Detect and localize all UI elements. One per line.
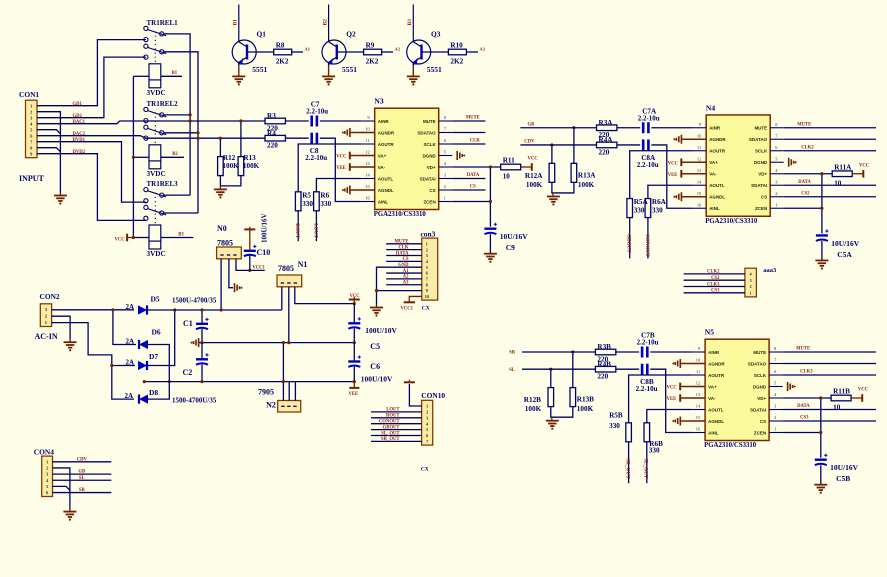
svg-text:MUTE: MUTE: [466, 116, 480, 121]
resistor R6: [314, 192, 320, 211]
voltage regulator N0 (7805): [217, 247, 242, 259]
relay TR1REL3 switch arm 2: [148, 209, 167, 215]
resistor R9: [364, 49, 382, 55]
power bar VCC R11A: [862, 170, 864, 178]
svg-text:TR1REL3: TR1REL3: [147, 180, 179, 188]
wire con3 wire A1: [386, 272, 422, 274]
svg-text:100K: 100K: [222, 162, 239, 170]
wire ground mid rail: [199, 342, 355, 344]
wire R8 to A1: [292, 51, 303, 53]
svg-text:CDV: CDV: [524, 139, 535, 144]
svg-text:VA+: VA+: [378, 153, 387, 158]
wire N0 input stub to positive rail: [220, 259, 222, 310]
svg-text:VCC: VCC: [528, 157, 539, 162]
ground N0: [234, 283, 236, 292]
junction R12A top: [550, 143, 553, 146]
svg-text:DATA: DATA: [396, 251, 409, 256]
svg-text:GB: GB: [78, 470, 85, 475]
wire R12 R13 ground link: [220, 176, 241, 186]
svg-text:D7: D7: [149, 352, 158, 361]
svg-text:AOUTL: AOUTL: [378, 176, 394, 181]
ground stem R12B: [551, 417, 553, 421]
svg-text:6: 6: [426, 433, 428, 438]
svg-text:D6: D6: [152, 328, 161, 337]
svg-text:11: 11: [696, 369, 700, 374]
svg-text:B2: B2: [322, 19, 328, 26]
N5 pin 5 stub: [769, 386, 783, 388]
svg-text:R9: R9: [366, 42, 375, 50]
ground C5A: [815, 259, 828, 261]
junction N5 VD+ node: [819, 396, 822, 399]
transistor Q1 ground stem: [238, 66, 240, 77]
N5 pin 9 stub: [692, 351, 706, 353]
svg-text:AINR: AINR: [708, 350, 720, 355]
wire GD1 CON1 pin1 to relay REL1: [37, 40, 146, 106]
svg-text:5551: 5551: [427, 65, 442, 74]
ground N5 AGNDR: [679, 359, 681, 368]
svg-text:5: 5: [46, 484, 48, 489]
svg-text:AINL: AINL: [708, 430, 719, 435]
svg-text:AC-IN: AC-IN: [35, 332, 58, 341]
wire relay TR1REL3 coil right wire: [161, 237, 194, 239]
junction N4 ZCEN node: [820, 207, 823, 210]
svg-text:13: 13: [697, 168, 701, 173]
svg-text:Q1: Q1: [257, 30, 267, 39]
svg-text:8: 8: [30, 146, 32, 151]
transistor Q3: [407, 40, 431, 64]
svg-text:CS: CS: [470, 185, 476, 190]
junction N4 VD+ node: [820, 172, 823, 175]
svg-text:VA+: VA+: [708, 384, 717, 389]
svg-text:B3: B3: [178, 232, 184, 237]
svg-text:1: 1: [426, 404, 428, 409]
svg-text:R3A: R3A: [599, 119, 614, 127]
op-amp N4 (PGA2310/CS3310 volume control IC): [706, 115, 770, 216]
transistor Q2 emitter: [329, 57, 337, 62]
svg-text:TR1REL1: TR1REL1: [147, 19, 179, 27]
wire R6A output: [647, 218, 649, 259]
svg-text:CS2: CS2: [711, 276, 720, 281]
svg-text:VD+: VD+: [757, 396, 766, 401]
ground Q2: [322, 75, 335, 77]
svg-text:MUTE: MUTE: [797, 122, 811, 127]
transistor Q1 emitter: [239, 57, 247, 62]
svg-text:9: 9: [426, 288, 428, 293]
junction C5 at mid rail: [353, 341, 356, 344]
wire CON10 pin1 to chassis: [409, 384, 421, 406]
svg-text:CLK3: CLK3: [707, 282, 720, 287]
wire R12 to R4 row: [219, 138, 221, 156]
wire relay TR1REL3 coil left wire: [133, 237, 149, 239]
resistor R3B: [595, 349, 615, 355]
junction C1 mid rail: [200, 341, 203, 344]
svg-text:9: 9: [699, 122, 701, 127]
svg-text:DGND: DGND: [754, 160, 768, 165]
wire R3B to C7B: [616, 351, 639, 353]
transistor Q3 collector: [413, 42, 421, 47]
relay TR1REL1 contact circle 1: [144, 26, 148, 30]
wire negative rail: [144, 381, 354, 383]
svg-text:SDATAO: SDATAO: [417, 130, 436, 135]
resistor R12: [218, 157, 224, 176]
N3 pin 1 stub: [439, 201, 453, 203]
svg-text:DATA: DATA: [798, 180, 811, 185]
svg-text:SDATAI: SDATAI: [420, 176, 436, 181]
wire R12A to input row: [551, 145, 553, 163]
svg-text:5551: 5551: [342, 65, 357, 74]
junction bus V1 x R3 row: [189, 119, 192, 122]
N5 pin 7 stub: [769, 363, 783, 365]
svg-text:AGNDR: AGNDR: [378, 130, 395, 135]
relay TR1REL2 contact circle 3: [144, 125, 148, 129]
resistor R11: [501, 164, 521, 170]
svg-text:CON10: CON10: [421, 391, 445, 400]
svg-text:SDATAI: SDATAI: [751, 183, 767, 188]
capacitor C8: [310, 133, 313, 144]
wire con3 wire MUTE: [386, 243, 422, 245]
wire CON4 pin4 SL: [53, 479, 112, 481]
svg-text:C5A: C5A: [837, 250, 852, 259]
wire N5 ZCEN wire to decoupling node: [783, 432, 821, 434]
svg-text:10U/16V: 10U/16V: [500, 232, 529, 241]
wire N5 MUTE wire: [783, 351, 876, 353]
wire CON10 wire SL_OUT: [371, 435, 422, 437]
svg-text:PGA2310/CS3310: PGA2310/CS3310: [704, 442, 757, 449]
svg-text:B2: B2: [172, 152, 178, 157]
svg-text:2K2: 2K2: [450, 58, 463, 66]
svg-text:12: 12: [697, 156, 701, 161]
svg-text:R4: R4: [267, 129, 276, 137]
svg-text:4: 4: [46, 478, 48, 483]
wire AC1 down to D6: [113, 310, 136, 345]
svg-text:330: 330: [649, 446, 660, 454]
resistor R10: [448, 49, 466, 55]
wire N3 SDATAI wire: [452, 178, 485, 180]
svg-text:SCLK: SCLK: [423, 142, 436, 147]
svg-text:R5A: R5A: [634, 198, 649, 206]
wire N3 ZCEN wire to decoupling node: [452, 201, 490, 203]
relay TR1REL1 switch arm 2: [148, 47, 167, 53]
wire aaa3 wire CS3: [684, 292, 745, 294]
svg-text:100U/10V: 100U/10V: [365, 326, 397, 335]
wire con3 pin9 to ground bus: [377, 290, 422, 292]
resistor R6B: [644, 423, 650, 442]
wire C1 top: [201, 310, 203, 324]
wire CON2 pin3 to bridge node AC2: [52, 323, 134, 400]
wire C5A to ground: [821, 241, 823, 261]
svg-text:4: 4: [426, 421, 428, 426]
N3 pin 13 stub: [361, 166, 375, 168]
junction C1 positive rail: [200, 308, 203, 311]
svg-text:10: 10: [425, 294, 429, 299]
svg-text:R13B: R13B: [577, 396, 594, 404]
svg-text:10: 10: [696, 358, 700, 363]
junction C10 bottom node: [248, 269, 251, 272]
chassis bar at CON10: [404, 381, 415, 383]
svg-text:3: 3: [750, 278, 752, 283]
power bar VCC coils: [126, 234, 128, 242]
N3 pin 9 stub: [361, 120, 375, 122]
wire C9 to ground: [489, 234, 491, 254]
svg-text:11: 11: [697, 145, 701, 150]
capacitor C6: [348, 360, 360, 362]
svg-text:CX: CX: [422, 306, 430, 312]
junction N0 input at positive rail: [220, 308, 223, 311]
svg-text:R11A: R11A: [834, 163, 852, 171]
capacitor C5A: [816, 234, 828, 236]
ground N5 DGND: [787, 382, 789, 391]
N4 pin 16 stub: [693, 207, 707, 209]
N4 pin 14 stub: [693, 184, 707, 186]
diode D5: [138, 305, 147, 314]
svg-text:1: 1: [775, 202, 777, 207]
N3 pin 12 stub: [361, 155, 375, 157]
wire DAC1 CON1 pin4 to relay REL2 and R3: [37, 121, 265, 124]
svg-text:AOUTL: AOUTL: [709, 183, 725, 188]
svg-text:SL_OUT: SL_OUT: [643, 458, 649, 479]
svg-text:2: 2: [750, 284, 752, 289]
svg-text:AOUTL: AOUTL: [708, 407, 724, 412]
capacitor C2: [196, 358, 208, 360]
wire R4B to C8B: [616, 368, 639, 370]
wire CON4 pin6 SR: [53, 492, 112, 494]
svg-text:VCC1: VCC1: [401, 307, 414, 312]
N4 pin 11 stub: [693, 150, 707, 152]
power bar VCC main: [349, 299, 360, 301]
svg-text:3: 3: [444, 173, 446, 178]
wire con3 wire GND: [386, 266, 422, 268]
svg-text:N5: N5: [705, 328, 714, 337]
wire N2 mid stub to negative rail: [288, 382, 290, 401]
svg-text:VCC1: VCC1: [252, 265, 265, 270]
svg-text:1500-4700U/35: 1500-4700U/35: [172, 397, 217, 405]
wire N4 SDATAO wire: [784, 138, 876, 140]
resistor R4B: [595, 366, 615, 372]
wire D5 cathode to positive rail: [147, 309, 175, 311]
N5 pin 11 stub: [692, 374, 706, 376]
wire aaa3 wire CLK2: [684, 273, 745, 275]
power bar above C10: [244, 228, 255, 230]
svg-text:DVD2: DVD2: [73, 150, 86, 155]
relay TR1REL2 linkage dashed line: [154, 112, 156, 143]
connector CON4: [42, 456, 53, 496]
svg-text:con3: con3: [421, 230, 436, 239]
relay TR1REL1 contact circle 4: [144, 55, 148, 59]
svg-text:7905: 7905: [258, 388, 274, 397]
transistor Q3 ground stem: [412, 66, 414, 77]
svg-text:7: 7: [30, 140, 32, 145]
wire CON4 pin2 to ground: [53, 468, 70, 509]
wire C7B to N5 AINR: [650, 351, 691, 353]
wire AC2 to D7: [112, 365, 135, 367]
svg-text:2.2-10u: 2.2-10u: [306, 108, 328, 116]
svg-text:8: 8: [444, 115, 446, 120]
connector con3: [422, 238, 438, 300]
N5 pin 12 stub: [692, 386, 706, 388]
wire CON10 wire LOUT: [371, 411, 422, 413]
junction N1 ground at mid rail: [287, 341, 290, 344]
junction coil bus x REL2 coil: [132, 156, 135, 159]
wire N1 ground stub to mid rail: [288, 287, 290, 343]
svg-text:5: 5: [426, 265, 428, 270]
svg-text:SDATAO: SDATAO: [748, 361, 767, 366]
wire positive rail: [175, 309, 282, 311]
N3 pin 16 stub: [361, 201, 375, 203]
svg-text:100U/10V: 100U/10V: [361, 375, 393, 384]
ground N3 AGNDL: [349, 186, 351, 195]
wire SL input wire to R4B: [522, 368, 595, 370]
junction R12 top junction: [219, 137, 222, 140]
svg-text:100K: 100K: [577, 405, 594, 413]
svg-text:AGNDL: AGNDL: [709, 195, 725, 200]
wire N0 ground stub: [229, 259, 233, 288]
wire con3 pin10 to VCC1: [409, 296, 422, 302]
svg-text:220: 220: [597, 373, 608, 381]
svg-text:CDV: CDV: [77, 457, 88, 462]
svg-text:DATA: DATA: [797, 404, 810, 409]
svg-text:AGNDR: AGNDR: [709, 137, 726, 142]
svg-text:VCC: VCC: [115, 238, 126, 243]
ground stem CON4: [69, 509, 71, 512]
svg-text:100K: 100K: [578, 181, 595, 189]
relay TR1REL3 throw contact 1: [160, 193, 164, 197]
N3 pin 5 stub: [439, 155, 453, 157]
wire R9 to A2: [382, 51, 393, 53]
svg-text:CON2: CON2: [40, 292, 60, 301]
wire CON10 wire ROUT: [371, 417, 422, 419]
power bar VCC N5: [679, 383, 681, 391]
svg-text:A3: A3: [480, 47, 486, 52]
wire N5 AOUTL to R6B: [647, 410, 692, 423]
ground mid rail: [198, 338, 200, 347]
wire relay coil VCC bus: [132, 76, 134, 237]
wire N3 VD+ wire: [452, 166, 501, 168]
svg-text:4: 4: [750, 272, 752, 277]
relay TR1REL2 switch arm 2: [148, 128, 167, 134]
svg-text:R4B: R4B: [597, 360, 611, 368]
svg-text:4: 4: [30, 122, 32, 127]
wire C7A to N4 AINR: [651, 127, 692, 129]
svg-text:2: 2: [426, 410, 428, 415]
N3 pin 4 stub: [439, 166, 453, 168]
wire R6B output: [646, 442, 648, 483]
N4 pin 7 stub: [770, 138, 784, 140]
transistor Q3 emitter: [413, 57, 421, 62]
diode D6: [139, 340, 148, 349]
wire N5 VD+ wire: [783, 397, 832, 399]
ground C9: [484, 253, 497, 255]
wire N4 VD+ wire: [784, 173, 833, 175]
relay TR1REL1 switch arm 1: [148, 30, 167, 36]
wire N5 VD+ decoupling vertical: [820, 398, 822, 458]
relay TR1REL2 throw contact 2: [160, 131, 164, 135]
capacitor C7: [310, 116, 313, 127]
junction R13A top: [572, 126, 575, 129]
svg-text:R13: R13: [243, 154, 256, 162]
resistor R13B: [570, 388, 576, 407]
wire C6 bottom to negative rail: [353, 367, 355, 382]
N4 pin 8 stub: [770, 127, 784, 129]
svg-text:CLK2: CLK2: [707, 270, 720, 275]
svg-text:CS2: CS2: [801, 191, 810, 196]
svg-text:MUTE: MUTE: [394, 240, 408, 245]
svg-text:5: 5: [426, 427, 428, 432]
wire C10 bottom: [249, 254, 251, 270]
svg-text:10: 10: [834, 179, 842, 187]
wire N3 AOUTR to R5: [298, 144, 361, 192]
svg-text:6: 6: [426, 271, 428, 276]
wire CON1 pin2 to ground bus: [37, 112, 60, 193]
svg-text:VA+: VA+: [709, 160, 718, 165]
svg-text:CLK3: CLK3: [800, 370, 813, 375]
svg-text:DGND: DGND: [753, 384, 767, 389]
wire relay TR1REL2 coil left wire: [133, 156, 149, 158]
svg-text:100K: 100K: [525, 405, 542, 413]
ground Q3: [407, 75, 420, 77]
ground stem con3: [376, 305, 378, 308]
ground N4 AGNDR: [680, 135, 682, 144]
svg-text:AINR: AINR: [378, 119, 390, 124]
wire N3 CS wire: [452, 189, 485, 191]
N5 pin 3 stub: [769, 409, 783, 411]
N5 pin 15 stub: [692, 420, 706, 422]
svg-text:ZCEN: ZCEN: [755, 206, 767, 211]
capacitor C5B: [815, 459, 827, 461]
svg-text:AGNDR: AGNDR: [708, 361, 725, 366]
svg-text:12: 12: [696, 381, 700, 386]
svg-text:AGNDL: AGNDL: [708, 419, 724, 424]
junction negative rail at D6-D8 bus: [168, 380, 171, 383]
svg-text:AOUTR: AOUTR: [709, 149, 726, 154]
wire N1 output to VCC node: [295, 287, 355, 304]
wire N2 right stub to negative rail: [294, 382, 296, 401]
svg-text:330: 330: [302, 200, 313, 208]
svg-text:3: 3: [775, 179, 777, 184]
ground N4 AGNDL: [680, 192, 682, 201]
svg-text:10U/16V: 10U/16V: [830, 463, 859, 472]
svg-text:R12: R12: [223, 154, 236, 162]
svg-text:ROUT: ROUT: [386, 414, 400, 419]
svg-text:2: 2: [46, 466, 48, 471]
svg-text:D5: D5: [151, 295, 160, 304]
svg-text:C2: C2: [183, 368, 193, 377]
junction C6 at negative rail: [353, 380, 356, 383]
wire C8 to N3 AINL: [320, 138, 361, 201]
wire R6 output: [315, 211, 317, 241]
svg-text:GBOUT: GBOUT: [626, 234, 632, 253]
wire DVD2 CON1 pin9 to relay REL3: [37, 154, 146, 221]
power bar VCC R11B: [861, 394, 863, 402]
svg-text:LOUT: LOUT: [386, 408, 400, 413]
svg-text:2: 2: [30, 110, 32, 115]
wire C2 top: [201, 343, 203, 360]
wire relay REL2 throw2 to bus V2: [164, 132, 198, 134]
wire DAC2 CON1 pin6 to relay REL2 and R4: [37, 136, 265, 139]
svg-text:C6: C6: [370, 362, 380, 371]
wire N5 CS wire: [783, 420, 876, 422]
svg-text:8: 8: [775, 122, 777, 127]
svg-text:R3B: R3B: [597, 343, 611, 351]
wire con3 wire CLK: [386, 249, 422, 251]
svg-text:SCLK: SCLK: [755, 149, 768, 154]
junction bus V2 x REL2 throw2: [196, 131, 199, 134]
svg-text:12: 12: [365, 150, 369, 155]
relay TR1REL2 contact circle 2: [144, 119, 148, 123]
svg-text:PGA2310/CS3310: PGA2310/CS3310: [374, 211, 427, 218]
junction N3 VD+ node: [489, 165, 492, 168]
N3 pin 14 stub: [361, 178, 375, 180]
ground R12B: [546, 420, 559, 422]
